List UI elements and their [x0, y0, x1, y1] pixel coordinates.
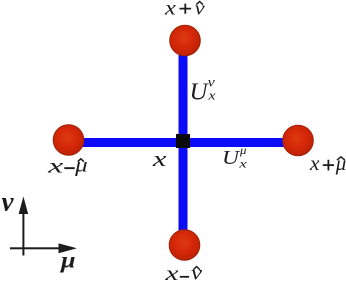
- label x+nu-hat (top): [164, 0, 206, 19]
- wire: vertical gauge link bar: [179, 39, 188, 246]
- label U_x^mu (horizontal link variable): [222, 143, 248, 171]
- wire: horizontal gauge link bar: [66, 138, 300, 147]
- label x+mu-hat (right): [309, 151, 346, 175]
- node x-mu: left lattice site (red circle): [53, 125, 84, 156]
- svg-text:x: x: [152, 146, 167, 171]
- svg-text:x: x: [164, 263, 179, 282]
- svg-text:μ: μ: [60, 248, 76, 273]
- svg-text:ν: ν: [2, 187, 15, 217]
- svg-text:U: U: [190, 79, 210, 105]
- svg-text:x: x: [164, 0, 176, 19]
- node x: central lattice site (black square): [176, 134, 190, 148]
- axis nu: vertical arrow: [19, 197, 29, 256]
- label U_x^nu (vertical link variable): [190, 76, 217, 106]
- label x-mu-hat (left): [47, 154, 88, 178]
- svg-text:x: x: [47, 154, 65, 178]
- axis mu: horizontal arrow: [10, 243, 77, 253]
- node x-nu: bottom lattice site (red circle): [169, 230, 200, 261]
- svg-text:μ: μ: [335, 153, 346, 175]
- svg-text:x: x: [238, 156, 248, 170]
- label x-nu-hat (bottom): [164, 263, 202, 282]
- node x+mu: right lattice site (red circle): [283, 125, 314, 156]
- svg-text:μ: μ: [239, 143, 247, 157]
- svg-text:x: x: [309, 151, 320, 175]
- svg-text:U: U: [222, 147, 240, 169]
- node x+nu: top lattice site (red circle): [170, 25, 201, 56]
- svg-text:x: x: [207, 88, 216, 102]
